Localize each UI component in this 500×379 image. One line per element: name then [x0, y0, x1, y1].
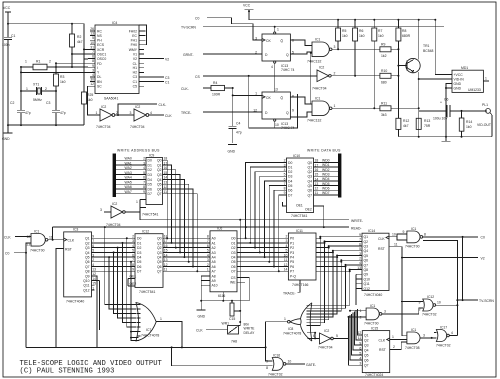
svg-text:WD4: WD4 [322, 177, 330, 181]
svg-text:Q9: Q9 [85, 274, 90, 278]
svg-text:WA3: WA3 [125, 171, 132, 175]
svg-text:8: 8 [424, 232, 426, 236]
svg-text:IC4: IC4 [112, 21, 117, 25]
flip-flop IC13a [255, 28, 294, 73]
svg-text:P4: P4 [290, 256, 294, 260]
svg-text:MD1: MD1 [461, 66, 468, 70]
wire addr row 7 [163, 270, 210, 272]
wire RA0 [92, 237, 136, 239]
svg-text:2: 2 [132, 235, 134, 239]
wire WA5 [116, 183, 146, 185]
svg-text:IC12: IC12 [142, 230, 149, 234]
svg-text:R8: R8 [402, 29, 406, 33]
svg-text:SC: SC [97, 85, 102, 89]
svg-text:IC6: IC6 [217, 227, 222, 231]
svg-text:SAA5041: SAA5041 [104, 97, 118, 101]
wire WD2 [314, 171, 339, 173]
svg-text:2: 2 [45, 87, 47, 91]
svg-text:D2: D2 [148, 168, 152, 172]
svg-text:74HCT00: 74HCT00 [405, 245, 420, 249]
svg-text:15: 15 [164, 249, 168, 253]
svg-text:4: 4 [359, 356, 361, 360]
svg-text:D0: D0 [288, 161, 292, 165]
svg-text:IC1: IC1 [34, 229, 39, 233]
wire ff1 qb to gate1 [290, 40, 312, 46]
svg-text:IC1: IC1 [411, 328, 416, 332]
svg-text:WD5: WD5 [322, 182, 330, 186]
wire IC14 rst to V2 [389, 247, 402, 258]
svg-text:4: 4 [150, 111, 152, 115]
counter IC3 74HCT4040 [64, 232, 92, 297]
svg-text:3: 3 [207, 258, 209, 262]
svg-text:V2: V2 [165, 57, 169, 61]
buffer IC12 74HCT541 [135, 234, 163, 288]
svg-text:D7: D7 [288, 193, 292, 197]
svg-text:V2: V2 [133, 57, 137, 61]
svg-text:5: 5 [359, 351, 361, 355]
wire riser v5 [306, 262, 341, 311]
svg-text:C2: C2 [10, 101, 14, 105]
svg-text:WA6: WA6 [125, 185, 132, 189]
svg-text:14: 14 [92, 277, 96, 281]
svg-text:CK: CK [266, 39, 271, 43]
svg-text:Q̄: Q̄ [280, 95, 283, 100]
svg-text:C1: C1 [165, 80, 169, 84]
svg-text:Q3: Q3 [85, 246, 90, 250]
svg-text:74HC132: 74HC132 [307, 60, 321, 64]
counter IC15 74HCT4024 [362, 331, 389, 373]
logic gate IC8 74HCT4078 (mirrored) [310, 303, 312, 341]
svg-text:R3: R3 [60, 75, 64, 79]
wire ff1 pr chain [274, 63, 276, 92]
svg-text:OE2: OE2 [305, 208, 312, 212]
svg-text:8: 8 [207, 235, 209, 239]
node V2 (right) [402, 257, 478, 259]
wire IC9 out 6 riser [163, 189, 194, 267]
svg-text:6116: 6116 [218, 294, 225, 298]
svg-text:WD2: WD2 [322, 168, 330, 172]
svg-text:OE1: OE1 [296, 204, 303, 208]
node dots vcc rail [337, 19, 339, 21]
svg-text:Q4: Q4 [307, 179, 312, 183]
ram IC6 6116 [210, 231, 237, 292]
svg-text:WD0: WD0 [322, 159, 330, 163]
svg-text:NS: NS [97, 34, 102, 38]
wire IC3 to gate risers [105, 227, 137, 304]
svg-text:18: 18 [315, 159, 319, 163]
power VCC (osc) [3, 6, 11, 24]
svg-text:1k0: 1k0 [466, 125, 472, 129]
svg-text:10: 10 [392, 233, 396, 237]
svg-text:UM1233: UM1233 [468, 88, 481, 92]
wire ff1 clr to tvscrn [274, 27, 276, 32]
svg-text:10: 10 [284, 253, 288, 257]
svg-text:WD6: WD6 [322, 186, 330, 190]
svg-text:4: 4 [451, 331, 453, 335]
svg-text:13: 13 [357, 266, 361, 270]
svg-text:10: 10 [437, 300, 441, 304]
wire RA4 [92, 256, 136, 258]
resistor R7 [372, 20, 384, 109]
wire sc to inverter [88, 86, 101, 115]
svg-text:1k0: 1k0 [342, 34, 348, 38]
counter IC14 74HCT4040 [362, 233, 389, 290]
svg-text:Q7: Q7 [157, 192, 162, 196]
svg-text:5: 5 [132, 249, 134, 253]
svg-text:Q6: Q6 [85, 260, 90, 264]
svg-text:WRITE-: WRITE- [351, 219, 363, 223]
svg-text:WA4: WA4 [125, 176, 132, 180]
svg-text:8: 8 [266, 366, 268, 370]
svg-text:A4: A4 [212, 256, 216, 260]
svg-text:IC9: IC9 [149, 153, 154, 157]
svg-text:Q6: Q6 [157, 265, 162, 269]
svg-text:C1: C1 [11, 34, 15, 38]
resistor R5 [336, 20, 348, 50]
svg-text:4k7: 4k7 [403, 124, 409, 128]
svg-text:Q10: Q10 [364, 277, 371, 281]
svg-text:4: 4 [92, 73, 94, 77]
svg-text:D0: D0 [137, 237, 141, 241]
transistor TR1 BC548 [397, 20, 433, 137]
svg-text:WRITE ADDRESS BUS: WRITE ADDRESS BUS [117, 149, 160, 153]
wire IC11 out 6 riser [316, 266, 346, 268]
svg-text:GRNT-: GRNT- [183, 53, 194, 57]
svg-text:TRCE-: TRCE- [181, 111, 191, 115]
svg-text:D6: D6 [148, 187, 152, 191]
svg-text:5: 5 [207, 249, 209, 253]
node CLK- in [181, 87, 211, 91]
IC9 inside labels [148, 159, 152, 196]
svg-text:5: 5 [336, 334, 338, 338]
svg-text:74HCT04: 74HCT04 [106, 223, 121, 227]
svg-text:74HCT4024: 74HCT4024 [365, 373, 383, 377]
svg-text:74HCT02: 74HCT02 [436, 343, 451, 347]
svg-text:3: 3 [92, 253, 94, 257]
svg-text:C6: C6 [444, 98, 448, 102]
wire WD7 [314, 194, 339, 196]
svg-text:+VCC: +VCC [454, 73, 464, 77]
wire write delay riser [239, 220, 241, 322]
wire gate ic12b inputs [382, 302, 423, 314]
svg-text:75R: 75R [424, 124, 431, 128]
svg-text:VCC: VCC [3, 6, 11, 10]
IC10 data buffer [287, 158, 314, 213]
svg-text:74HCT541: 74HCT541 [142, 213, 159, 217]
op IC2 inverter D (OE driver) [111, 206, 123, 218]
svg-text:R10: R10 [381, 69, 387, 73]
wire vcc rail right [249, 19, 435, 21]
svg-text:Q7: Q7 [85, 265, 90, 269]
svg-text:C0: C0 [195, 17, 199, 21]
wire IC7 out to W2 [165, 322, 182, 348]
svg-text:A1: A1 [212, 241, 216, 245]
wire W1 C0 bottom run [26, 346, 266, 348]
logic gate IC1c 74HCT00 (clk/read) [31, 234, 45, 247]
svg-text:GND: GND [198, 315, 206, 319]
wire IC14 in 6 [346, 264, 363, 266]
wire data row 6 [237, 266, 288, 268]
svg-text:8: 8 [132, 263, 134, 267]
svg-text:74HCT04: 74HCT04 [312, 87, 327, 91]
svg-text:D6: D6 [288, 189, 292, 193]
svg-text:74HC 74: 74HC 74 [281, 68, 294, 72]
svg-text:GND: GND [454, 82, 462, 86]
svg-text:IC14: IC14 [368, 229, 375, 233]
svg-text:7: 7 [207, 239, 209, 243]
svg-text:3: 3 [423, 334, 425, 338]
wire C0 down to bottom [25, 253, 27, 348]
wire addr row 0 [163, 237, 210, 239]
wire IC14 in 3 [333, 250, 362, 252]
svg-text:1: 1 [92, 286, 94, 290]
svg-text:C1: C1 [133, 80, 137, 84]
resistor R2 [70, 24, 83, 67]
svg-text:4k7: 4k7 [77, 40, 83, 44]
wire data row 3 [237, 251, 288, 253]
svg-text:IC10: IC10 [293, 154, 300, 158]
resistor R9 [380, 43, 400, 58]
svg-text:WD3: WD3 [322, 173, 330, 177]
svg-text:R12: R12 [403, 119, 409, 123]
svg-text:74HC 74: 74HC 74 [281, 126, 294, 130]
svg-text:Q12: Q12 [364, 287, 371, 291]
svg-text:WD1: WD1 [322, 163, 330, 167]
svg-text:Q5: Q5 [307, 184, 312, 188]
wire addr row 1 [163, 242, 210, 244]
svg-text:1: 1 [392, 335, 394, 339]
svg-text:Q5: Q5 [364, 254, 369, 258]
connector PL1 [477, 103, 492, 137]
svg-text:100R: 100R [212, 93, 221, 97]
svg-text:1k0: 1k0 [359, 34, 365, 38]
logic gate IC2c inverter [312, 66, 380, 91]
wire vcc rail [8, 23, 84, 25]
svg-text:Q3: Q3 [157, 173, 162, 177]
wire IC14 in 5 [341, 259, 362, 261]
svg-text:7: 7 [92, 239, 94, 243]
svg-text:13: 13 [274, 88, 278, 92]
svg-text:12: 12 [164, 185, 168, 189]
svg-text:17: 17 [164, 161, 168, 165]
svg-text:Q1: Q1 [364, 235, 369, 239]
svg-text:5: 5 [92, 36, 94, 40]
svg-text:7: 7 [284, 182, 286, 186]
svg-text:PL1: PL1 [482, 103, 488, 107]
svg-text:(C) PAUL STENNING 1993: (C) PAUL STENNING 1993 [20, 367, 115, 375]
svg-text:10: 10 [90, 41, 94, 45]
wire IC11 out 5 riser [316, 261, 341, 263]
svg-text:PH: PH [97, 39, 102, 43]
svg-text:V1: V1 [133, 53, 137, 57]
svg-text:RC: RC [97, 30, 102, 34]
svg-text:GND: GND [454, 87, 462, 91]
svg-text:IC2: IC2 [135, 105, 140, 109]
svg-text:Q4: Q4 [364, 348, 369, 352]
svg-text:31: 31 [90, 45, 94, 49]
wire riser v1 [306, 243, 324, 323]
wire cs reset branch [249, 76, 298, 128]
preset R14 [459, 110, 472, 137]
wire data row 2 [237, 247, 288, 249]
svg-text:10: 10 [275, 123, 279, 127]
svg-text:R25: R25 [87, 93, 93, 97]
node CLK [149, 114, 164, 116]
svg-text:1: 1 [136, 200, 138, 204]
svg-text:D1: D1 [148, 164, 152, 168]
svg-text:Q3: Q3 [157, 251, 162, 255]
resistor R13 [416, 118, 431, 136]
svg-text:IC15: IC15 [371, 326, 378, 330]
svg-text:XT1: XT1 [33, 83, 39, 87]
svg-text:D5: D5 [148, 183, 152, 187]
svg-text:1: 1 [485, 77, 487, 81]
svg-text:12: 12 [358, 331, 362, 335]
wire WA7 [116, 193, 146, 195]
svg-text:30: 30 [90, 78, 94, 82]
wire riser v3 [306, 252, 333, 317]
svg-text:3: 3 [359, 362, 361, 366]
svg-text:16: 16 [164, 166, 168, 170]
svg-text:GATE-: GATE- [306, 363, 316, 367]
wire IC9 out 1 riser [163, 165, 172, 243]
pin numbers IC3 [92, 235, 96, 291]
wire addr row 4 [163, 256, 210, 258]
svg-text:R14: R14 [466, 120, 472, 124]
svg-text:P5: P5 [290, 260, 294, 264]
svg-text:74HCT541: 74HCT541 [291, 214, 308, 218]
svg-text:16: 16 [164, 244, 168, 248]
wire data row 4 [237, 256, 288, 258]
wire IC9 out 7 riser [163, 194, 198, 272]
svg-text:3: 3 [132, 239, 134, 243]
wire IC14 in 4 [337, 255, 362, 257]
IC9 address buffer [146, 158, 163, 205]
svg-text:9: 9 [403, 230, 405, 234]
wire data row 0 [237, 237, 288, 239]
svg-text:11: 11 [164, 190, 168, 194]
svg-text:WA1: WA1 [125, 161, 132, 165]
svg-text:Q2: Q2 [364, 240, 369, 244]
svg-text:1k2: 1k2 [381, 54, 387, 58]
IC10 OE pins [283, 202, 324, 227]
svg-text:GND: GND [228, 150, 236, 154]
svg-text:12: 12 [92, 272, 96, 276]
svg-text:CS: CS [195, 75, 200, 79]
svg-text:TRACE-: TRACE- [283, 291, 296, 295]
svg-text:47p: 47p [236, 131, 242, 135]
svg-text:P6: P6 [290, 265, 294, 269]
wire md1 gnds [446, 84, 452, 137]
svg-text:100n: 100n [2, 43, 10, 47]
node GATE- [286, 363, 305, 365]
svg-text:2: 2 [359, 257, 361, 261]
svg-text:FH0: FH0 [131, 43, 138, 47]
svg-text:WD7: WD7 [322, 191, 330, 195]
svg-text:IC2: IC2 [112, 202, 117, 206]
svg-text:P3: P3 [290, 251, 294, 255]
svg-text:3: 3 [284, 163, 286, 167]
svg-text:EC: EC [132, 34, 137, 38]
resistor R10 [354, 69, 399, 84]
wire IC10 in 3 riser [260, 176, 287, 252]
svg-text:CS: CS [231, 276, 236, 280]
svg-text:3: 3 [384, 309, 386, 313]
wire WA4 [116, 178, 146, 180]
svg-text:74HCT00: 74HCT00 [30, 249, 45, 253]
svg-text:74HC132: 74HC132 [307, 119, 321, 123]
svg-text:IC1: IC1 [370, 304, 375, 308]
resistor R11 [332, 102, 420, 117]
wire C0 riser down [462, 237, 464, 300]
svg-text:4: 4 [286, 244, 288, 248]
svg-text:6: 6 [143, 176, 145, 180]
svg-text:IC1: IC1 [315, 97, 320, 101]
wire WRITE- line [140, 219, 349, 221]
svg-text:11: 11 [394, 243, 398, 247]
svg-text:11: 11 [358, 336, 362, 340]
svg-text:C5: C5 [133, 85, 137, 89]
svg-text:OE2: OE2 [130, 282, 137, 286]
svg-text:47p: 47p [60, 111, 66, 115]
svg-text:A5: A5 [212, 260, 216, 264]
pin numbers IC14 [357, 233, 361, 270]
logic gate IC1b 74HC132 [307, 97, 336, 123]
svg-text:Q0: Q0 [157, 159, 162, 163]
wire IC15 input staircase [358, 309, 363, 335]
ground (IC6) [197, 292, 224, 310]
svg-text:A8: A8 [212, 274, 216, 278]
wire bottom gnd rail [398, 136, 492, 138]
svg-text:Q7: Q7 [364, 364, 369, 368]
svg-text:4: 4 [132, 244, 134, 248]
svg-text:3: 3 [255, 36, 257, 40]
svg-text:Q5: Q5 [157, 260, 162, 264]
svg-text:OSC0: OSC0 [97, 57, 106, 61]
svg-text:5: 5 [286, 249, 288, 253]
svg-text:C0: C0 [5, 252, 9, 256]
logic gate IC17 74HCT02 [436, 330, 446, 342]
svg-text:74HCT08: 74HCT08 [405, 346, 420, 350]
node CS [195, 75, 317, 79]
svg-text:8: 8 [92, 59, 94, 63]
svg-text:12: 12 [90, 82, 94, 86]
shift register IC11 74HCT166 [288, 233, 316, 280]
svg-text:D3: D3 [288, 175, 292, 179]
svg-text:Q: Q [286, 53, 289, 57]
svg-text:O0: O0 [231, 237, 236, 241]
svg-text:IC2: IC2 [324, 329, 329, 333]
svg-text:O7: O7 [231, 270, 236, 274]
svg-text:CK: CK [266, 96, 271, 100]
svg-text:18: 18 [164, 235, 168, 239]
capacitor C15 [230, 303, 234, 316]
power VCC (center) [243, 4, 253, 20]
svg-text:IC11: IC11 [296, 229, 303, 233]
svg-text:Q10: Q10 [83, 279, 90, 283]
svg-text:H2: H2 [133, 71, 137, 75]
node C0 (right) [423, 236, 478, 238]
svg-text:Q̄: Q̄ [280, 38, 283, 43]
svg-text:Q8: Q8 [364, 268, 369, 272]
wire IC10 in 7 riser [279, 195, 287, 271]
svg-text:Q4: Q4 [364, 249, 369, 253]
svg-text:A7: A7 [212, 270, 216, 274]
wire data row 7 [237, 270, 288, 272]
node TV-SCRN (top) [181, 26, 444, 30]
svg-text:O1: O1 [231, 241, 236, 245]
wire IC11 out 0 riser [316, 237, 320, 239]
